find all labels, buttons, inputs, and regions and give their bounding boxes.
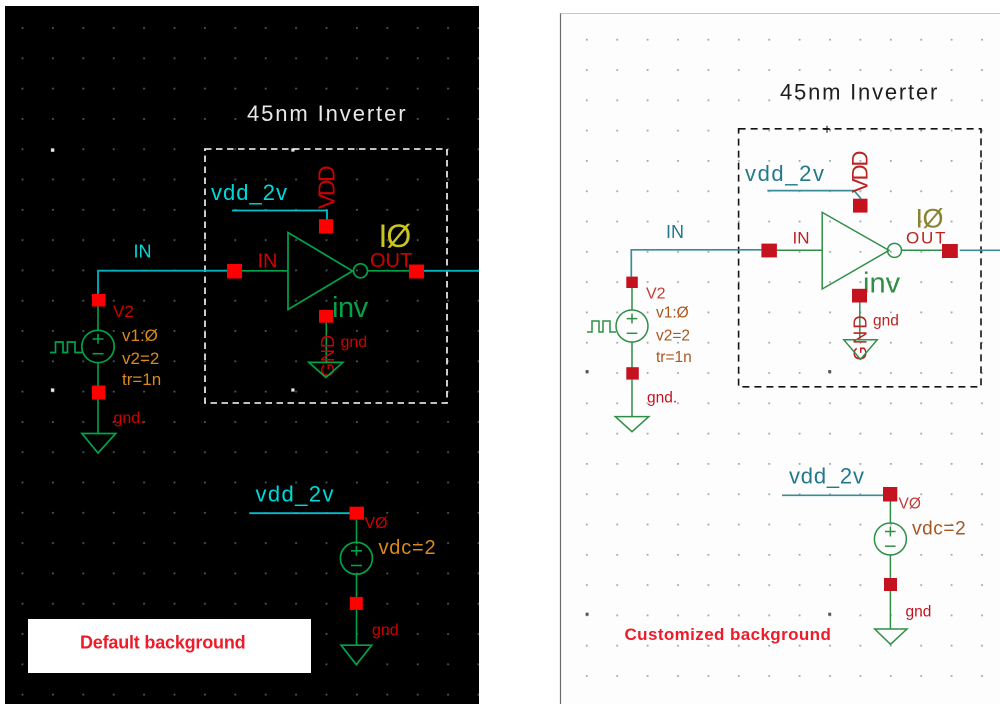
svg-text:vdd_2v: vdd_2v	[789, 464, 865, 489]
V2 pulse waveform symbol	[50, 342, 82, 353]
svg-text:v1:Ø: v1:Ø	[122, 326, 158, 345]
wire: vdd_2v net (left)	[232, 211, 327, 221]
wire: V0 pin to circle (left)	[356, 520, 358, 543]
svg-text:gnd: gnd	[873, 313, 899, 330]
svg-text:IN: IN	[134, 242, 152, 262]
wire: IN net (right)	[631, 250, 761, 277]
ground symbol V2 (left)	[82, 434, 116, 453]
svg-text:V2: V2	[646, 286, 666, 303]
svg-text:gnd: gnd	[372, 622, 399, 639]
ground symbol V0 (left)	[341, 645, 372, 664]
wire: vdd_2v net (right bottom)	[782, 494, 890, 496]
ground symbol V2 (right)	[615, 417, 649, 432]
wire: V2 to ground (right)	[631, 380, 633, 417]
svg-text:vdd_2v: vdd_2v	[211, 180, 288, 205]
inverter symbol I0 triangle (right)	[822, 212, 889, 289]
svg-text:gnd: gnd	[906, 604, 932, 621]
wire: V2 top pin to circle (left)	[97, 307, 99, 331]
wire: V0 pin to circle (right)	[889, 502, 891, 524]
V2 source circle (right)	[616, 310, 648, 342]
wire: vdd_2v net (right)	[767, 191, 861, 199]
pin square: inverter OUT (left)	[409, 265, 424, 279]
inverter bubble (right)	[888, 243, 902, 257]
svg-text:GND: GND	[850, 313, 871, 360]
pin square: V0 minus (right)	[884, 578, 897, 591]
pin square: inverter IN (left)	[227, 264, 242, 279]
svg-text:gnd: gnd	[341, 334, 368, 351]
wire: IN net (left)	[98, 271, 227, 294]
wire: V0 circle to bottom pin (left)	[356, 574, 358, 597]
V2 minus sign (right)	[627, 332, 638, 334]
wire: bubble to OUT pin (left)	[368, 270, 410, 272]
V2 plus sign	[93, 334, 104, 344]
inverter instance boundary (right, dashed)	[739, 129, 981, 387]
svg-text:v2=2: v2=2	[656, 328, 690, 345]
svg-text:IN: IN	[666, 222, 684, 242]
V0 plus sign	[351, 546, 362, 556]
pin square: V0 plus (left)	[350, 507, 365, 520]
wire: V2 circle to bottom pin (left)	[97, 363, 99, 386]
voltage source V2 (left): top pin square	[92, 294, 106, 307]
major grid dots (left)	[51, 148, 295, 631]
V0 minus sign	[351, 565, 362, 567]
svg-text:OUT: OUT	[906, 229, 947, 248]
pin square: V0 plus (right)	[883, 487, 897, 502]
pin square: V2 minus (right)	[626, 367, 639, 379]
V2 plus sign (right)	[627, 314, 638, 324]
pin square: inverter IN (right)	[761, 244, 777, 258]
wire: gnd pin down (left)	[325, 323, 327, 363]
svg-text:vdc=2: vdc=2	[912, 519, 966, 540]
svg-text:Customized background: Customized background	[625, 625, 832, 644]
svg-text:gnd.: gnd.	[114, 410, 145, 427]
svg-text:tr=1n: tr=1n	[656, 349, 692, 366]
svg-text:gnd.: gnd.	[647, 390, 677, 407]
svg-text:45nm Inverter: 45nm Inverter	[780, 80, 939, 105]
V0 source circle (left)	[340, 542, 372, 574]
op-amp / inverter symbol I0 triangle (left)	[288, 233, 353, 310]
svg-text:IN: IN	[793, 229, 810, 248]
pin square: inverter OUT (right)	[942, 244, 958, 258]
right schematic panel background	[561, 13, 1000, 704]
svg-text:vdd_2v: vdd_2v	[256, 482, 335, 507]
wire: V2 to ground (left)	[97, 400, 99, 434]
origin cross marker on dashed boundary (right)	[824, 126, 831, 133]
svg-text:tr=1n: tr=1n	[122, 370, 161, 389]
ground symbol under inverter (left)	[309, 362, 343, 377]
wire: IN pin to triangle (right)	[777, 249, 822, 251]
wire: gnd pin down (right)	[859, 303, 861, 340]
svg-text:VDD: VDD	[314, 166, 340, 209]
svg-text:45nm Inverter: 45nm Inverter	[247, 101, 407, 126]
svg-text:V2: V2	[113, 302, 134, 321]
inverter bubble (left)	[354, 264, 368, 278]
voltage source V2 (right): top pin square	[626, 277, 638, 288]
V2 source circle (left)	[82, 330, 114, 362]
V2 minus sign	[93, 353, 104, 355]
right panel window border	[560, 13, 562, 704]
svg-text:OUT: OUT	[370, 250, 412, 272]
wire: V0 to ground (right)	[889, 591, 891, 629]
pin square: inverter GND (right)	[852, 289, 867, 303]
left schematic panel background	[5, 6, 479, 704]
wire: V2 circle to bottom pin (right)	[631, 342, 633, 368]
pin square: inverter VDD (right)	[853, 199, 868, 213]
svg-text:VØ: VØ	[899, 496, 921, 513]
ground symbol under inverter (right)	[844, 340, 877, 360]
major grid dots (right)	[586, 370, 832, 616]
wire: V0 to ground (left)	[356, 610, 358, 645]
svg-text:v2=2: v2=2	[122, 349, 159, 368]
V0 plus sign (right)	[885, 527, 896, 537]
svg-text:IN: IN	[258, 251, 278, 273]
svg-text:inv: inv	[332, 292, 369, 324]
pin square: inverter VDD (left)	[319, 219, 333, 233]
svg-text:inv: inv	[863, 268, 901, 300]
annotation box: Default background	[28, 619, 311, 673]
wire: V0 circle to bottom pin (right)	[889, 555, 891, 578]
pin square: V2 minus (left)	[92, 386, 106, 400]
wire: IN pin to triangle (left)	[242, 270, 288, 272]
pin square: V0 minus (left)	[350, 597, 363, 610]
V0 minus sign (right)	[885, 545, 896, 547]
wire: V2 top pin to circle (right)	[631, 288, 633, 310]
svg-text:vdd_2v: vdd_2v	[745, 161, 826, 186]
ground symbol V0 (right)	[875, 629, 907, 644]
wire: OUT net (left, cyan)	[424, 270, 479, 272]
pin square: inverter GND (left)	[319, 310, 333, 323]
V2 pulse waveform symbol (right)	[587, 321, 616, 332]
wire: vdd_2v net (left bottom)	[249, 512, 356, 514]
svg-text:VØ: VØ	[365, 515, 388, 532]
wire: bubble to OUT pin (right)	[902, 249, 943, 251]
svg-text:vdc=2: vdc=2	[379, 537, 437, 559]
svg-text:v1:Ø: v1:Ø	[656, 305, 689, 322]
svg-text:Default background: Default background	[80, 633, 245, 653]
svg-text:IØ: IØ	[379, 218, 411, 254]
V0 source circle (right)	[874, 523, 906, 555]
wire: OUT net (right, teal)	[960, 249, 1000, 251]
inverter instance boundary (left, dashed)	[205, 149, 447, 403]
svg-text:VDD: VDD	[848, 151, 873, 193]
